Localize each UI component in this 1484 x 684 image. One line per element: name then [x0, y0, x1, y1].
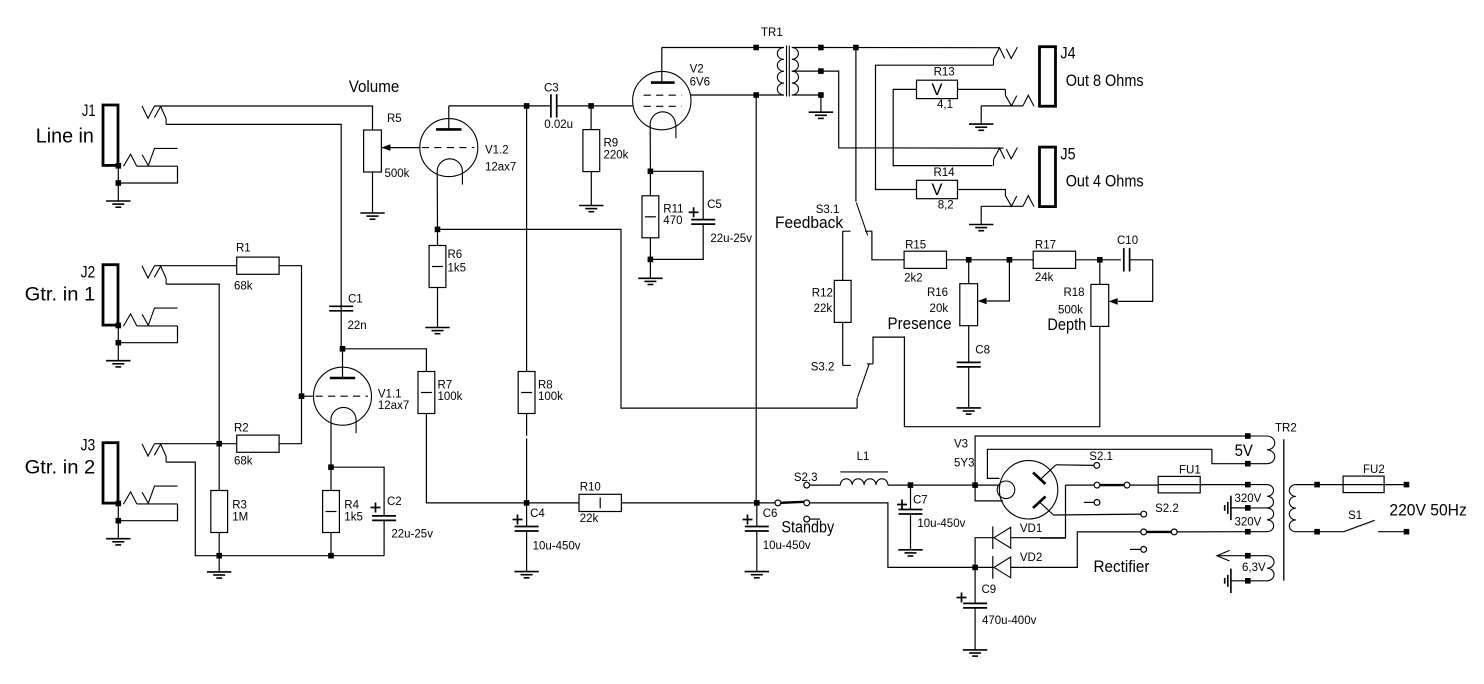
- svg-text:6,3V: 6,3V: [1242, 562, 1266, 574]
- svg-text:100k: 100k: [438, 391, 463, 403]
- svg-text:R1: R1: [236, 243, 251, 255]
- svg-text:12ax7: 12ax7: [378, 400, 409, 412]
- svg-text:470: 470: [663, 215, 682, 227]
- svg-text:R18: R18: [1063, 287, 1084, 299]
- svg-text:1k5: 1k5: [344, 512, 363, 524]
- svg-text:C2: C2: [387, 496, 402, 508]
- svg-text:6V6: 6V6: [690, 77, 710, 89]
- svg-text:10u-450v: 10u-450v: [763, 540, 811, 552]
- svg-text:470u-400v: 470u-400v: [982, 615, 1037, 627]
- svg-text:10u-450v: 10u-450v: [533, 541, 581, 553]
- svg-text:V2: V2: [690, 64, 704, 76]
- svg-text:10u-450v: 10u-450v: [917, 518, 965, 530]
- svg-text:S3.2: S3.2: [811, 362, 835, 374]
- svg-text:C1: C1: [348, 294, 363, 306]
- svg-text:22u-25v: 22u-25v: [391, 529, 433, 541]
- svg-text:V3: V3: [954, 439, 968, 451]
- svg-text:24k: 24k: [1035, 272, 1054, 284]
- svg-text:VD2: VD2: [1020, 552, 1042, 564]
- svg-text:22n: 22n: [348, 320, 367, 332]
- svg-text:S2.2: S2.2: [1155, 503, 1179, 515]
- svg-text:500k: 500k: [385, 168, 410, 180]
- svg-text:L1: L1: [857, 451, 870, 463]
- svg-text:V: V: [931, 181, 942, 199]
- svg-text:TR2: TR2: [1275, 423, 1297, 435]
- svg-text:Rectifier: Rectifier: [1094, 558, 1150, 576]
- svg-text:5Y3: 5Y3: [954, 458, 974, 470]
- svg-text:Volume: Volume: [349, 78, 400, 96]
- svg-text:R14: R14: [934, 167, 956, 179]
- svg-text:12ax7: 12ax7: [485, 162, 516, 174]
- svg-text:1k5: 1k5: [448, 263, 467, 275]
- svg-text:320V: 320V: [1235, 516, 1262, 528]
- svg-text:Out 4 Ohms: Out 4 Ohms: [1066, 173, 1144, 191]
- svg-text:R15: R15: [905, 240, 926, 252]
- svg-text:S1: S1: [1348, 510, 1362, 522]
- svg-text:Out 8 Ohms: Out 8 Ohms: [1066, 72, 1144, 90]
- svg-text:TR1: TR1: [761, 27, 783, 39]
- svg-text:R9: R9: [604, 138, 619, 150]
- svg-text:Presence: Presence: [888, 315, 952, 333]
- svg-text:4,1: 4,1: [937, 99, 953, 111]
- svg-text:J2: J2: [81, 263, 96, 281]
- svg-text:220V 50Hz: 220V 50Hz: [1389, 502, 1466, 520]
- svg-text:C10: C10: [1117, 235, 1138, 247]
- svg-text:22k: 22k: [814, 303, 833, 315]
- svg-text:2k2: 2k2: [904, 273, 923, 285]
- svg-text:500k: 500k: [1058, 305, 1083, 317]
- svg-text:0.02u: 0.02u: [544, 119, 573, 131]
- svg-text:C5: C5: [707, 199, 722, 211]
- svg-text:Feedback: Feedback: [775, 214, 844, 232]
- svg-text:C3: C3: [544, 83, 559, 95]
- svg-text:V1.2: V1.2: [485, 145, 509, 157]
- svg-text:22k: 22k: [580, 513, 599, 525]
- svg-text:68k: 68k: [234, 281, 253, 293]
- svg-text:R8: R8: [538, 380, 553, 392]
- svg-text:FU1: FU1: [1179, 465, 1201, 477]
- svg-text:R2: R2: [234, 423, 249, 435]
- svg-text:R3: R3: [232, 500, 247, 512]
- svg-text:C8: C8: [975, 345, 990, 357]
- svg-text:R12: R12: [812, 288, 833, 300]
- svg-text:5V: 5V: [1235, 442, 1253, 460]
- svg-text:VD1: VD1: [1020, 523, 1042, 535]
- svg-text:20k: 20k: [930, 303, 949, 315]
- svg-text:8,2: 8,2: [938, 200, 954, 212]
- svg-text:Gtr. in 1: Gtr. in 1: [25, 285, 96, 306]
- svg-text:100k: 100k: [538, 391, 563, 403]
- svg-text:C9: C9: [982, 584, 997, 596]
- svg-text:J3: J3: [81, 437, 96, 455]
- svg-text:1M: 1M: [232, 512, 248, 524]
- svg-text:C6: C6: [763, 508, 778, 520]
- svg-text:J1: J1: [82, 102, 96, 120]
- svg-text:R6: R6: [448, 249, 463, 261]
- svg-text:C7: C7: [913, 495, 928, 507]
- svg-text:R4: R4: [344, 500, 359, 512]
- svg-text:Depth: Depth: [1047, 316, 1086, 334]
- svg-text:J4: J4: [1060, 45, 1075, 63]
- svg-text:R7: R7: [438, 380, 453, 392]
- svg-text:FU2: FU2: [1363, 464, 1385, 476]
- svg-text:S2.1: S2.1: [1089, 451, 1113, 463]
- svg-text:V1.1: V1.1: [378, 389, 402, 401]
- svg-text:C4: C4: [530, 508, 545, 520]
- svg-text:Line in: Line in: [36, 126, 94, 148]
- svg-text:220k: 220k: [604, 150, 629, 162]
- svg-text:J5: J5: [1060, 145, 1075, 163]
- svg-text:320V: 320V: [1235, 493, 1262, 505]
- svg-text:22u-25v: 22u-25v: [710, 233, 752, 245]
- svg-text:R16: R16: [927, 287, 948, 299]
- svg-text:68k: 68k: [234, 456, 253, 468]
- svg-text:R11: R11: [663, 204, 683, 216]
- svg-text:R10: R10: [580, 482, 601, 494]
- svg-text:V: V: [931, 81, 942, 99]
- svg-text:R13: R13: [934, 67, 955, 79]
- svg-text:R5: R5: [387, 113, 402, 125]
- svg-text:R17: R17: [1035, 240, 1056, 252]
- svg-text:Gtr. in 2: Gtr. in 2: [25, 458, 96, 479]
